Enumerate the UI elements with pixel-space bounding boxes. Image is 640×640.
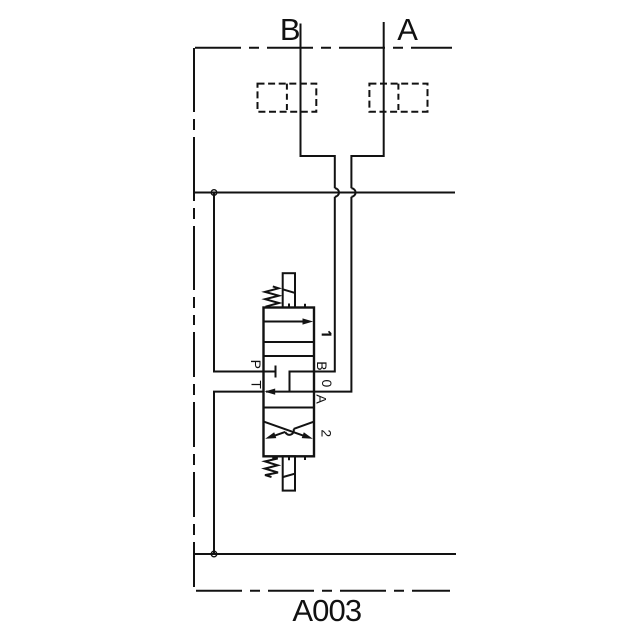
dashed accessory box on line B bbox=[258, 84, 317, 112]
enclosure dash-dot border left bbox=[193, 48, 195, 320]
wire hop of A over manifold line bbox=[351, 188, 355, 196]
position 0 blocked P stub bbox=[264, 366, 276, 378]
svg-text:T: T bbox=[249, 380, 265, 389]
valve U1 body outline bbox=[264, 308, 315, 457]
wire B: vertical drop, jog right, down to valve port B bbox=[290, 24, 340, 392]
wire hop of B over manifold line bbox=[335, 188, 339, 196]
enclosure dash-dot border top bbox=[195, 47, 452, 49]
position 1 plain flow line bbox=[264, 341, 314, 343]
position 2 crossed arrow (top-left to bottom-right) bbox=[264, 422, 313, 439]
node (bottom junction circle) bbox=[211, 551, 217, 557]
svg-text:B: B bbox=[280, 12, 301, 47]
spring top bbox=[265, 286, 279, 306]
wire P: from top node down and into valve port P bbox=[214, 193, 264, 372]
spring bottom bbox=[265, 458, 278, 477]
position 0 A-to-T flow arrow bbox=[265, 389, 315, 395]
valve position divider 1/0 bbox=[264, 355, 315, 357]
manifold bottom line bbox=[194, 553, 456, 555]
svg-text:A: A bbox=[313, 394, 329, 404]
valve position divider 0/2 bbox=[264, 407, 315, 409]
svg-text:A: A bbox=[397, 12, 418, 47]
position label 1 bbox=[322, 331, 332, 334]
position 1 flow arrow bbox=[264, 318, 313, 324]
wire T: from valve port T left and down to bottom node bbox=[214, 392, 264, 554]
solenoid top box bbox=[283, 273, 295, 307]
svg-text:A003: A003 bbox=[292, 593, 361, 628]
dashed accessory box on line A bbox=[369, 84, 427, 112]
wire A: vertical drop, jog left, down to valve port A bbox=[314, 22, 384, 392]
enclosure dash-dot border bottom bbox=[196, 590, 450, 592]
position 2 crossed arrow with hop (top-right to bottom-left) bbox=[265, 422, 314, 439]
svg-text:P: P bbox=[248, 360, 264, 369]
manifold top line bbox=[195, 192, 455, 194]
svg-text:0: 0 bbox=[319, 380, 335, 388]
tick marks on valve bottom edge bbox=[289, 456, 305, 460]
solenoid bottom box bbox=[283, 456, 295, 490]
tick marks on valve top edge bbox=[289, 304, 305, 308]
node (top junction circle) bbox=[211, 190, 217, 196]
svg-text:B: B bbox=[314, 361, 330, 370]
svg-text:2: 2 bbox=[318, 429, 334, 437]
